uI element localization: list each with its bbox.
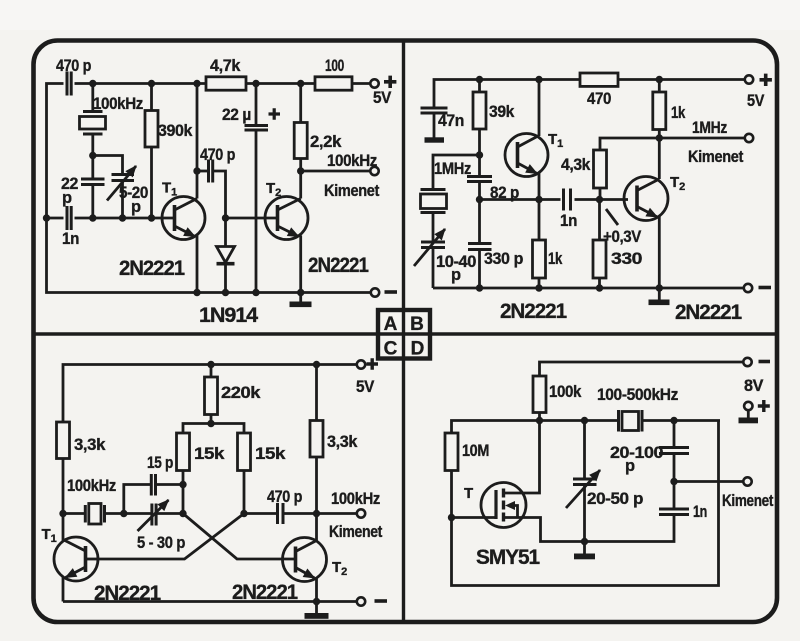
svg-text:1MHz: 1MHz bbox=[434, 160, 471, 178]
node: 330 rail bbox=[596, 284, 603, 291]
svg-text:470 p: 470 p bbox=[200, 146, 235, 164]
wire: D node bus right bbox=[540, 419, 619, 422]
svg-text:1n: 1n bbox=[693, 503, 707, 521]
gate bar bbox=[494, 490, 497, 519]
resistor 4,7k bbox=[206, 77, 246, 90]
svg-text:22 µ: 22 µ bbox=[222, 106, 251, 124]
node: cross-coupling right bbox=[240, 510, 247, 517]
wire: B bottom rail bbox=[433, 287, 744, 290]
resistor 220k bbox=[207, 361, 214, 368]
trimmer capacitor 10-40p bbox=[421, 241, 445, 244]
terminal +5V (B) bbox=[745, 75, 753, 83]
ground (B) bbox=[649, 300, 670, 306]
terminal +5V (A) bbox=[370, 79, 378, 87]
svg-text:8V: 8V bbox=[744, 377, 763, 395]
node: T2 emitter rail (C) bbox=[313, 598, 320, 605]
node: T1 base (B) bbox=[476, 151, 483, 158]
svg-text:5V: 5V bbox=[747, 92, 764, 110]
svg-text:+0,3V: +0,3V bbox=[603, 228, 641, 246]
svg-text:2,2k: 2,2k bbox=[310, 133, 342, 151]
resistor 39k bbox=[476, 76, 483, 83]
svg-text:p: p bbox=[62, 189, 72, 207]
gate lead bbox=[452, 516, 495, 519]
capacitor 1n (B) bbox=[562, 189, 565, 211]
svg-text:2N2221: 2N2221 bbox=[500, 299, 567, 323]
svg-text:D: D bbox=[411, 339, 425, 360]
channel segments bbox=[502, 489, 505, 498]
node: C collector T1 junction bbox=[59, 510, 66, 517]
wire: B top supply rail bbox=[434, 80, 580, 108]
wire: T1 emitter down (C) bbox=[62, 577, 65, 602]
resistor 3,3k (C left) bbox=[57, 422, 70, 459]
svg-text:2N2221: 2N2221 bbox=[119, 256, 185, 280]
svg-text:470 p: 470 p bbox=[267, 488, 302, 506]
resistor 15k (right) bbox=[238, 433, 251, 471]
resistor 470 (B) bbox=[580, 73, 618, 86]
ABCD quadrant key box bbox=[378, 310, 430, 360]
node: +0,3V junction bbox=[596, 196, 603, 203]
svg-text:C: C bbox=[384, 339, 398, 360]
svg-text:5 - 30 p: 5 - 30 p bbox=[137, 534, 185, 552]
resistor 2,2k bbox=[297, 80, 304, 87]
node: gate junction bbox=[448, 514, 455, 521]
trimmer capacitor 5-30p bbox=[150, 504, 153, 526]
capacitor 82p bbox=[467, 175, 492, 178]
wire: B mid bus bbox=[480, 198, 561, 201]
resistor 10M bbox=[445, 433, 458, 471]
capacitor 470p (A top-left) bbox=[66, 72, 69, 96]
source lead bbox=[504, 518, 585, 542]
svg-text:47n: 47n bbox=[438, 112, 464, 130]
svg-text:2N2221: 2N2221 bbox=[675, 300, 742, 324]
wire: T2 collector up (C) bbox=[315, 514, 318, 542]
svg-text:1n: 1n bbox=[62, 230, 79, 248]
svg-text:330 p: 330 p bbox=[484, 250, 523, 268]
svg-text:15 p: 15 p bbox=[147, 454, 173, 472]
svg-text:39k: 39k bbox=[489, 103, 515, 121]
ground (C) bbox=[305, 613, 329, 619]
ground stub (47n) bbox=[425, 137, 445, 142]
capacitor 1n (A) bbox=[66, 206, 69, 230]
capacitor 22p bbox=[91, 156, 94, 180]
svg-text:Kimenet: Kimenet bbox=[329, 523, 383, 541]
wire: base node to crystal branch bbox=[433, 155, 480, 190]
node: varicap top bbox=[581, 417, 588, 424]
ground (A) bbox=[290, 302, 312, 308]
capacitor 15p bbox=[124, 485, 150, 514]
resistor 1k (B left) bbox=[538, 200, 541, 241]
wire: T1 emitter to mid bus bbox=[538, 173, 541, 200]
vertical divider bbox=[402, 41, 405, 623]
svg-text:Kimenet: Kimenet bbox=[722, 492, 774, 510]
wire: 100kHz output bbox=[301, 170, 371, 173]
node: C output junction bbox=[313, 510, 320, 517]
node: T2 base junction bbox=[222, 214, 229, 221]
node: T1 emitter rail bbox=[193, 289, 200, 296]
svg-text:B: B bbox=[410, 314, 424, 335]
svg-text:100k: 100k bbox=[549, 383, 582, 401]
node: 330p rail bbox=[476, 284, 483, 291]
svg-text:p: p bbox=[625, 457, 635, 475]
node: T2 emitter rail bbox=[297, 289, 304, 296]
svg-text:15k: 15k bbox=[194, 445, 225, 463]
svg-text:1k: 1k bbox=[548, 250, 563, 268]
svg-text:100kHz: 100kHz bbox=[327, 152, 377, 170]
node: 390k to base bus bbox=[148, 214, 155, 221]
wire: T2 emitter to ground rail bbox=[299, 236, 302, 303]
svg-text:4,3k: 4,3k bbox=[561, 156, 591, 174]
wire: C bottom rail bbox=[63, 600, 357, 603]
drain lead bbox=[504, 421, 540, 494]
svg-text:A: A bbox=[384, 314, 398, 335]
svg-text:5V: 5V bbox=[373, 89, 391, 107]
svg-text:5V: 5V bbox=[356, 378, 374, 396]
resistor 100 (A) bbox=[315, 77, 352, 90]
svg-text:Kimenet: Kimenet bbox=[688, 148, 744, 166]
wire: top node down to crystal bbox=[91, 84, 94, 112]
svg-text:T: T bbox=[464, 485, 473, 502]
wire: T2 emitter down (B) bbox=[658, 216, 661, 288]
svg-text:3,3k: 3,3k bbox=[74, 436, 106, 454]
wire: A base bus bbox=[47, 217, 64, 220]
svg-text:p: p bbox=[451, 266, 461, 284]
node: source/ground junction bbox=[581, 538, 588, 545]
wire: D top minus rail bbox=[540, 362, 744, 376]
substrate arrow bbox=[513, 506, 518, 518]
svg-text:470: 470 bbox=[587, 90, 611, 108]
wire: T1 emitter down to rail bbox=[196, 236, 199, 293]
node: crystal bottom junction bbox=[89, 152, 96, 159]
resistor 3,3k (C right) bbox=[313, 361, 320, 368]
svg-text:2N2221: 2N2221 bbox=[308, 253, 369, 277]
wire: A top supply rail bbox=[47, 84, 64, 219]
resistor 1k (B right) bbox=[656, 76, 663, 83]
wire: T2 collector / output node bbox=[299, 159, 302, 199]
svg-text:330: 330 bbox=[611, 250, 642, 268]
svg-text:20-100: 20-100 bbox=[610, 444, 663, 462]
wire: node to 10M bbox=[452, 421, 540, 434]
capacitor 470p (A coupling) bbox=[197, 170, 209, 173]
node: 220k bottom split bbox=[207, 420, 214, 427]
resistor 15k (left) bbox=[177, 433, 190, 471]
diode 1N914 bbox=[224, 218, 227, 247]
svg-text:390k: 390k bbox=[158, 122, 193, 140]
node: 82p / mid bus bbox=[476, 196, 483, 203]
wire: Kimenet output (D) bbox=[674, 480, 744, 483]
svg-text:100kHz: 100kHz bbox=[331, 490, 380, 508]
node: diode rail bbox=[222, 289, 229, 296]
terminal + with ground bar (D) bbox=[744, 402, 752, 410]
node: output junction (D) bbox=[670, 478, 677, 485]
svg-text:470 p: 470 p bbox=[56, 57, 91, 75]
wire: T2 emitter down (C) bbox=[315, 577, 318, 614]
node: 22p to base bus bbox=[89, 214, 96, 221]
resistor 100k bbox=[533, 376, 546, 413]
svg-text:15k: 15k bbox=[255, 445, 286, 463]
resistor 4,3k bbox=[600, 138, 659, 150]
ground (D) bbox=[574, 554, 595, 560]
svg-text:100kHz: 100kHz bbox=[67, 477, 116, 495]
node: cross-coupling left bbox=[179, 510, 186, 517]
svg-text:1N914: 1N914 bbox=[199, 303, 258, 327]
svg-text:100: 100 bbox=[325, 57, 344, 75]
wire: split to 15k pair bbox=[183, 424, 244, 434]
node: T1 collector / 470p tap bbox=[193, 167, 200, 174]
node: 1k rail bbox=[535, 284, 542, 291]
capacitor 470p (C) bbox=[244, 512, 276, 515]
svg-text:10M: 10M bbox=[462, 442, 489, 460]
svg-text:3,3k: 3,3k bbox=[327, 433, 358, 451]
wire: 1MHz output bbox=[659, 137, 745, 140]
node: 1MHz output bbox=[656, 134, 663, 141]
wire: A bottom rail bbox=[47, 218, 371, 293]
capacitor 330p bbox=[468, 242, 492, 245]
svg-text:100-500kHz: 100-500kHz bbox=[597, 386, 678, 404]
trimmer capacitor 5-20p bbox=[112, 173, 135, 176]
wire: diagonal 183 to T2 base bbox=[183, 514, 296, 560]
node: 15p / 15k left bbox=[179, 481, 186, 488]
node: trimmer to base bus bbox=[119, 214, 126, 221]
node: 22µ rail bbox=[252, 289, 259, 296]
capacitor 20-100p bbox=[670, 417, 677, 424]
wire: 100kHz output (C) bbox=[317, 512, 358, 515]
node: left wire / 1n junction bbox=[43, 214, 50, 221]
svg-text:SMY51: SMY51 bbox=[476, 545, 540, 569]
electrolytic capacitor 22µ bbox=[252, 80, 259, 87]
svg-text:20-50 p: 20-50 p bbox=[587, 490, 643, 508]
svg-text:Kimenet: Kimenet bbox=[324, 182, 380, 200]
svg-text:1k: 1k bbox=[671, 104, 686, 122]
svg-text:1MHz: 1MHz bbox=[692, 119, 727, 137]
node: drain/gate feed node bbox=[536, 417, 543, 424]
svg-text:1n: 1n bbox=[560, 212, 577, 230]
svg-text:p: p bbox=[131, 198, 141, 216]
svg-text:220k: 220k bbox=[221, 384, 261, 402]
svg-text:4,7k: 4,7k bbox=[210, 57, 241, 75]
wire: junction to trimmer branch bbox=[93, 156, 123, 175]
wire: right column down bbox=[452, 421, 719, 586]
node: T2 emitter rail (B) bbox=[656, 284, 663, 291]
node: crystal branch top bbox=[89, 80, 96, 87]
resistor 330 (B) bbox=[598, 200, 601, 241]
wire: diagonal 244 to T1 base bbox=[98, 514, 244, 560]
capacitor 1n (D) bbox=[673, 482, 676, 510]
wire: C top supply rail bbox=[63, 365, 357, 423]
horizontal divider bbox=[34, 332, 778, 335]
node: crystal / 15p column bbox=[120, 510, 127, 517]
terminal +5V (C) bbox=[357, 360, 365, 368]
wire: T2 base lead bbox=[226, 217, 278, 220]
wire: T1 collector up to rail bbox=[196, 84, 199, 199]
resistor 390k bbox=[148, 80, 155, 87]
trimmer capacitor 20-50p bbox=[583, 421, 586, 480]
capacitor 47n bbox=[421, 107, 448, 110]
wire: T1 collector to rail (B) bbox=[538, 80, 541, 137]
